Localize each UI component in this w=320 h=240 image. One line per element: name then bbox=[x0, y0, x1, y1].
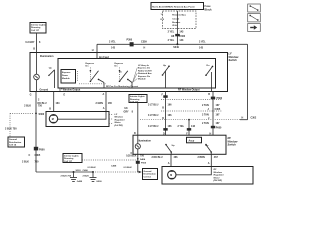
wire 2 DK BLU 466 bbox=[152, 154, 179, 166]
svg-text:S303: S303 bbox=[76, 170, 82, 172]
wire 2 DK BLU 164 to LF motor bbox=[38, 92, 61, 112]
monitoring current note bbox=[79, 68, 138, 89]
RF switch label bbox=[228, 136, 239, 146]
ground distribution cell box bbox=[8, 137, 25, 147]
svg-text:Illumination: Illumination bbox=[40, 55, 54, 58]
grommet P500 bbox=[34, 147, 45, 152]
svg-text:Retained Acc: Retained Acc bbox=[172, 14, 187, 17]
svg-text:G200: G200 bbox=[96, 181, 102, 183]
svg-text:2 GRN: 2 GRN bbox=[96, 102, 104, 105]
svg-text:(RH DR): (RH DR) bbox=[214, 180, 223, 182]
wire 2 YEL 143 drop to RF switch bbox=[178, 119, 196, 136]
interior lights dimming cell box top left bbox=[30, 23, 46, 34]
switch LF express labels bbox=[86, 63, 95, 68]
svg-text:B: B bbox=[162, 107, 164, 110]
svg-text:Motor: Motor bbox=[214, 176, 220, 179]
svg-text:750: 750 bbox=[35, 160, 40, 163]
RF motor label bbox=[214, 169, 224, 182]
svg-text:Radio On/Off: Radio On/Off bbox=[138, 70, 152, 72]
switch dn right in master bbox=[205, 65, 213, 91]
svg-text:C305: C305 bbox=[215, 108, 221, 111]
svg-text:Module: Module bbox=[62, 78, 70, 80]
svg-text:143: 143 bbox=[111, 47, 116, 50]
svg-text:Cell 117: Cell 117 bbox=[31, 30, 40, 32]
wire 0.3 GRY 8 bbox=[25, 33, 41, 53]
svg-text:S306: S306 bbox=[39, 113, 45, 116]
wire H into inner box bbox=[96, 53, 98, 59]
label 2 YEL 143 left bbox=[109, 41, 116, 50]
dashed illumination ref bbox=[82, 159, 136, 161]
svg-text:B: B bbox=[49, 107, 51, 110]
svg-text:Distribution: Distribution bbox=[9, 141, 22, 144]
svg-text:Interior Lights: Interior Lights bbox=[130, 95, 145, 98]
svg-text:164: 164 bbox=[56, 102, 61, 105]
svg-text:Ign Feed: Ign Feed bbox=[99, 56, 109, 59]
svg-text:A: A bbox=[168, 162, 170, 165]
icon button arrow bbox=[248, 24, 261, 32]
svg-text:G400: G400 bbox=[77, 180, 83, 183]
svg-text:2 BLK: 2 BLK bbox=[24, 104, 31, 107]
svg-text:M: M bbox=[170, 174, 172, 177]
svg-text:Interior Lights: Interior Lights bbox=[31, 24, 46, 27]
svg-text:Express: Express bbox=[115, 63, 124, 65]
switch LF in master bbox=[90, 68, 104, 89]
svg-text:P500: P500 bbox=[39, 148, 45, 151]
wire 2 YEL 143 breaker to splice bbox=[168, 29, 186, 45]
ground G400 bbox=[70, 172, 83, 183]
svg-text:Express Dn: Express Dn bbox=[138, 68, 151, 70]
svg-text:S404: S404 bbox=[140, 158, 146, 161]
ground run bbox=[36, 171, 93, 173]
svg-text:3 LT BLU: 3 LT BLU bbox=[148, 114, 159, 117]
RF ground wire 0.35 BLK bbox=[126, 152, 147, 172]
splice S349 bbox=[173, 43, 179, 49]
svg-text:467: 467 bbox=[214, 156, 219, 159]
master window switch box bbox=[30, 53, 228, 92]
svg-text:Express: Express bbox=[62, 72, 71, 74]
label 2 YEL 143 right bbox=[199, 41, 206, 50]
icon button pan bbox=[248, 14, 261, 22]
svg-text:Illumination: Illumination bbox=[138, 139, 152, 142]
splice S303 bbox=[61, 169, 90, 177]
svg-text:Cell 14: Cell 14 bbox=[144, 175, 152, 178]
svg-text:166: 166 bbox=[168, 103, 173, 106]
svg-text:S349: S349 bbox=[173, 46, 179, 49]
switch up middle bbox=[162, 65, 170, 88]
circuit breaker CB (Retained Acc 25A) bbox=[161, 11, 187, 29]
svg-text:Dimming: Dimming bbox=[31, 27, 41, 29]
svg-text:166: 166 bbox=[168, 125, 173, 128]
svg-text:P500: P500 bbox=[141, 163, 147, 165]
svg-text:Express: Express bbox=[86, 63, 95, 65]
svg-text:Accy: Accy bbox=[189, 139, 195, 142]
switch RF in master bbox=[119, 68, 132, 89]
icon button zoom bbox=[248, 4, 261, 12]
svg-text:166: 166 bbox=[168, 114, 173, 117]
svg-text:2 YEL: 2 YEL bbox=[178, 125, 185, 128]
svg-text:RF Pwr For Monitoring Current: RF Pwr For Monitoring Current bbox=[106, 85, 138, 88]
RF window switch box bbox=[133, 135, 226, 154]
svg-text:RF Window Output: RF Window Output bbox=[178, 88, 200, 91]
svg-text:Module: Module bbox=[138, 79, 146, 81]
svg-text:Window: Window bbox=[214, 172, 223, 174]
fuse block dashed box bbox=[163, 4, 213, 29]
interior lights dimming box bottom bbox=[63, 154, 82, 163]
svg-text:M: M bbox=[52, 118, 54, 121]
dashed ref arrow 0.5 BLK bbox=[88, 165, 142, 174]
svg-text:G: G bbox=[30, 94, 32, 97]
output labels bottom of master bbox=[59, 88, 200, 91]
dotted boundary row 2 bbox=[161, 110, 222, 112]
svg-text:Distribution: Distribution bbox=[144, 173, 157, 176]
svg-text:Interior Lights: Interior Lights bbox=[64, 154, 79, 157]
RF illumination bbox=[135, 135, 151, 154]
svg-text:Down: Down bbox=[62, 75, 69, 77]
svg-text:2 YEL: 2 YEL bbox=[168, 31, 175, 34]
inner contact box bbox=[58, 59, 216, 89]
svg-text:3 LT BLU: 3 LT BLU bbox=[148, 125, 159, 128]
svg-text:Block: Block bbox=[205, 7, 213, 11]
svg-text:Express Dn: Express Dn bbox=[138, 76, 151, 78]
svg-text:Ground: Ground bbox=[144, 171, 153, 173]
svg-text:143: 143 bbox=[179, 39, 184, 42]
svg-text:Switch: Switch bbox=[228, 143, 237, 147]
svg-text:165: 165 bbox=[108, 102, 113, 105]
svg-text:Ground: Ground bbox=[9, 139, 18, 141]
ground G200 bbox=[90, 171, 103, 183]
connector C305 bbox=[29, 154, 41, 157]
switch RF express labels bbox=[115, 63, 124, 74]
svg-text:C: C bbox=[29, 154, 31, 157]
svg-text:167: 167 bbox=[216, 114, 221, 117]
svg-text:167: 167 bbox=[216, 122, 221, 125]
pin letters below master bbox=[30, 93, 211, 97]
wire 2 TAN 167 column bbox=[202, 92, 223, 136]
svg-text:C302: C302 bbox=[251, 117, 257, 120]
ground wire 2 BLK 750 bbox=[24, 92, 43, 173]
svg-text:0.5 BLK: 0.5 BLK bbox=[88, 167, 97, 169]
svg-text:A: A bbox=[208, 162, 210, 165]
wire drop to master pin H bbox=[92, 44, 97, 52]
function text column bbox=[138, 64, 153, 81]
svg-text:Cell 117: Cell 117 bbox=[64, 161, 73, 163]
svg-text:DK BLU: DK BLU bbox=[38, 102, 47, 105]
svg-text:P600: P600 bbox=[216, 126, 222, 129]
svg-text:C359: C359 bbox=[141, 41, 147, 44]
svg-text:Hot In ACC/ON/RUN: Retained Ac: Hot In ACC/ON/RUN: Retained Acc Power bbox=[152, 5, 195, 8]
svg-text:143: 143 bbox=[179, 31, 184, 34]
svg-text:Regulator: Regulator bbox=[214, 174, 224, 177]
svg-text:C305: C305 bbox=[35, 154, 41, 157]
svg-text:Switch: Switch bbox=[229, 58, 238, 62]
wire 0.8 GRY 8 bbox=[124, 103, 138, 136]
svg-text:Window: Window bbox=[115, 117, 124, 119]
lock switch Up bbox=[48, 68, 54, 88]
illumination lamp bbox=[34, 53, 40, 92]
svg-text:750: 750 bbox=[140, 154, 145, 157]
svg-text:0.3 GRY: 0.3 GRY bbox=[25, 41, 34, 44]
svg-text:0.5 BLK: 0.5 BLK bbox=[124, 167, 133, 169]
svg-text:2 BLK: 2 BLK bbox=[22, 160, 29, 163]
svg-text:Circuit: Circuit bbox=[172, 17, 179, 20]
svg-text:Cell 14: Cell 14 bbox=[9, 144, 17, 147]
svg-text:H: H bbox=[92, 49, 94, 52]
wire drop right to C302 bbox=[247, 44, 249, 119]
accy bus bbox=[187, 137, 202, 143]
svg-text:143: 143 bbox=[191, 125, 196, 128]
svg-text:2 YEL: 2 YEL bbox=[199, 41, 206, 44]
svg-text:H: H bbox=[242, 117, 244, 120]
svg-text:466: 466 bbox=[174, 156, 179, 159]
LF motor label bbox=[115, 114, 125, 127]
wire 3 LT BLU 166 column bbox=[148, 92, 172, 136]
express down module box bbox=[61, 70, 78, 84]
svg-text:A: A bbox=[103, 93, 105, 96]
svg-text:GRY: GRY bbox=[124, 111, 129, 114]
svg-text:3 LT BLU: 3 LT BLU bbox=[148, 103, 159, 106]
svg-text:B: B bbox=[208, 93, 210, 96]
svg-text:2 BRN: 2 BRN bbox=[198, 156, 205, 159]
svg-text:B: B bbox=[33, 48, 35, 51]
svg-text:D: D bbox=[134, 132, 136, 135]
svg-text:C300: C300 bbox=[179, 35, 185, 38]
wire 2 GRN 165 to LF motor bbox=[96, 92, 113, 112]
svg-text:Retained Acc: Retained Acc bbox=[138, 72, 153, 75]
splice S306 bbox=[10, 113, 45, 137]
svg-text:(LH DR): (LH DR) bbox=[115, 125, 123, 127]
svg-text:Dimming: Dimming bbox=[64, 158, 74, 160]
svg-text:C408: C408 bbox=[111, 165, 117, 168]
svg-text:P300: P300 bbox=[127, 39, 133, 42]
wire bus 2 YEL bbox=[97, 43, 248, 45]
LF window regulator motor box bbox=[46, 112, 113, 127]
svg-text:P600: P600 bbox=[217, 97, 223, 100]
svg-text:1 I: 1 I bbox=[161, 14, 164, 16]
svg-text:2 TAN: 2 TAN bbox=[202, 104, 209, 107]
svg-text:2 BLK 750: 2 BLK 750 bbox=[5, 128, 17, 131]
interior lights dimming box mid bbox=[129, 95, 147, 104]
svg-text:Regulator: Regulator bbox=[115, 118, 125, 121]
label LF Window Switch bbox=[229, 52, 240, 62]
grommet P300 bbox=[127, 39, 134, 47]
svg-text:Motor: Motor bbox=[115, 121, 121, 124]
svg-text:143: 143 bbox=[199, 46, 204, 49]
svg-text:LF Window Output: LF Window Output bbox=[59, 88, 80, 91]
svg-text:Breaker: Breaker bbox=[172, 22, 180, 24]
svg-text:C: C bbox=[131, 152, 133, 155]
RF switch up contact bbox=[165, 144, 175, 155]
svg-text:167: 167 bbox=[216, 104, 221, 107]
dotted boundary row 1 bbox=[161, 99, 222, 101]
title box Hot In ACC bbox=[151, 3, 204, 10]
svg-text:H: H bbox=[144, 47, 146, 50]
svg-text:2 YEL: 2 YEL bbox=[109, 41, 116, 44]
svg-text:LF Accy In: LF Accy In bbox=[138, 64, 150, 67]
svg-text:25 A: 25 A bbox=[172, 24, 177, 27]
svg-text:2 DK BLU: 2 DK BLU bbox=[152, 156, 163, 159]
svg-text:2 YEL: 2 YEL bbox=[168, 39, 175, 42]
connector C359 bbox=[141, 41, 147, 50]
svg-text:Ground: Ground bbox=[40, 88, 49, 91]
ground distribution cell box right bbox=[143, 169, 158, 180]
dotted boundary row 3 C302 bbox=[140, 117, 257, 120]
svg-text:2 BLK: 2 BLK bbox=[83, 175, 90, 177]
wire 2 BRN 467 bbox=[198, 154, 219, 166]
svg-text:2 TAN: 2 TAN bbox=[202, 122, 209, 125]
svg-text:A: A bbox=[103, 107, 105, 110]
RF window regulator motor box bbox=[162, 167, 253, 185]
RF switch dn contact bbox=[205, 144, 212, 155]
svg-text:C406: C406 bbox=[83, 169, 89, 172]
